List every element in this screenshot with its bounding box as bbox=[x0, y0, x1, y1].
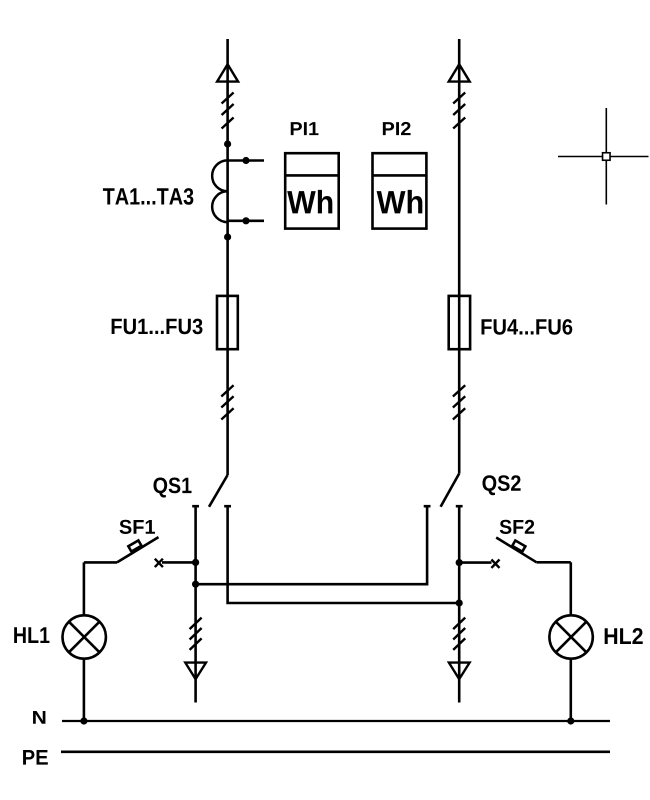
wire QS1 right jaw to bus B bbox=[228, 506, 460, 603]
switch QS2 bbox=[424, 474, 463, 507]
wire QS1 left jaw down bbox=[194, 506, 197, 702]
lamp HL1 bbox=[62, 562, 105, 721]
incoming arrow W1 bbox=[217, 64, 238, 81]
cable marks right top bbox=[453, 93, 465, 129]
label QS2 bbox=[482, 475, 520, 495]
fuse FU1...FU3 bbox=[217, 296, 238, 349]
breaker SF2 bbox=[459, 538, 571, 568]
cable marks left top bbox=[222, 93, 234, 129]
node SF2 tee bbox=[456, 559, 463, 566]
node SF1 tee bbox=[192, 559, 199, 566]
switch QS1 bbox=[192, 475, 231, 507]
label PI2 bbox=[383, 122, 411, 135]
fuse FU4...FU6 bbox=[449, 296, 470, 349]
node N HL2 bbox=[567, 717, 574, 724]
label FU4...FU6 bbox=[482, 319, 573, 335]
label FU1...FU3 bbox=[112, 319, 203, 335]
wire QS2 right jaw down bbox=[458, 506, 461, 702]
current transformer TA1...TA3 bbox=[212, 157, 264, 225]
meter PI1 Wh marking bbox=[287, 190, 332, 214]
label QS1 bbox=[153, 478, 191, 498]
lamp HL2 bbox=[549, 562, 592, 721]
wire bus A bbox=[196, 506, 428, 584]
node N HL1 bbox=[80, 717, 87, 724]
meter PI1 bbox=[285, 153, 339, 228]
breaker SF1 bbox=[84, 537, 196, 567]
wire left feeder vertical bbox=[226, 39, 229, 475]
node bus A tee left bbox=[192, 581, 199, 588]
wire right feeder vertical bbox=[458, 39, 461, 474]
label SF1 bbox=[120, 520, 155, 534]
meter PI2 bbox=[373, 153, 427, 228]
label TA1...TA3 bbox=[103, 188, 193, 205]
outgoing arrow left bbox=[185, 663, 206, 680]
node bus B tee right bbox=[456, 599, 463, 606]
node junction above CT bbox=[224, 140, 231, 147]
cursor crosshair bbox=[558, 108, 649, 205]
wire PE bus bbox=[61, 750, 610, 753]
wire N bus bbox=[62, 720, 610, 722]
cable marks right bottom bbox=[453, 618, 465, 650]
incoming arrow W2 bbox=[449, 64, 470, 81]
label HL1 bbox=[14, 627, 49, 643]
label N bbox=[33, 711, 45, 724]
node junction below CT bbox=[224, 233, 231, 240]
cable marks right middle bbox=[453, 385, 465, 419]
label SF2 bbox=[500, 520, 534, 534]
label HL2 bbox=[605, 628, 643, 644]
outgoing arrow right bbox=[449, 663, 470, 680]
label PI1 bbox=[291, 122, 319, 135]
meter PI2 Wh marking bbox=[377, 190, 423, 214]
cable marks left middle bbox=[221, 385, 233, 419]
cable marks left bottom bbox=[190, 618, 202, 650]
label PE bbox=[23, 750, 48, 765]
